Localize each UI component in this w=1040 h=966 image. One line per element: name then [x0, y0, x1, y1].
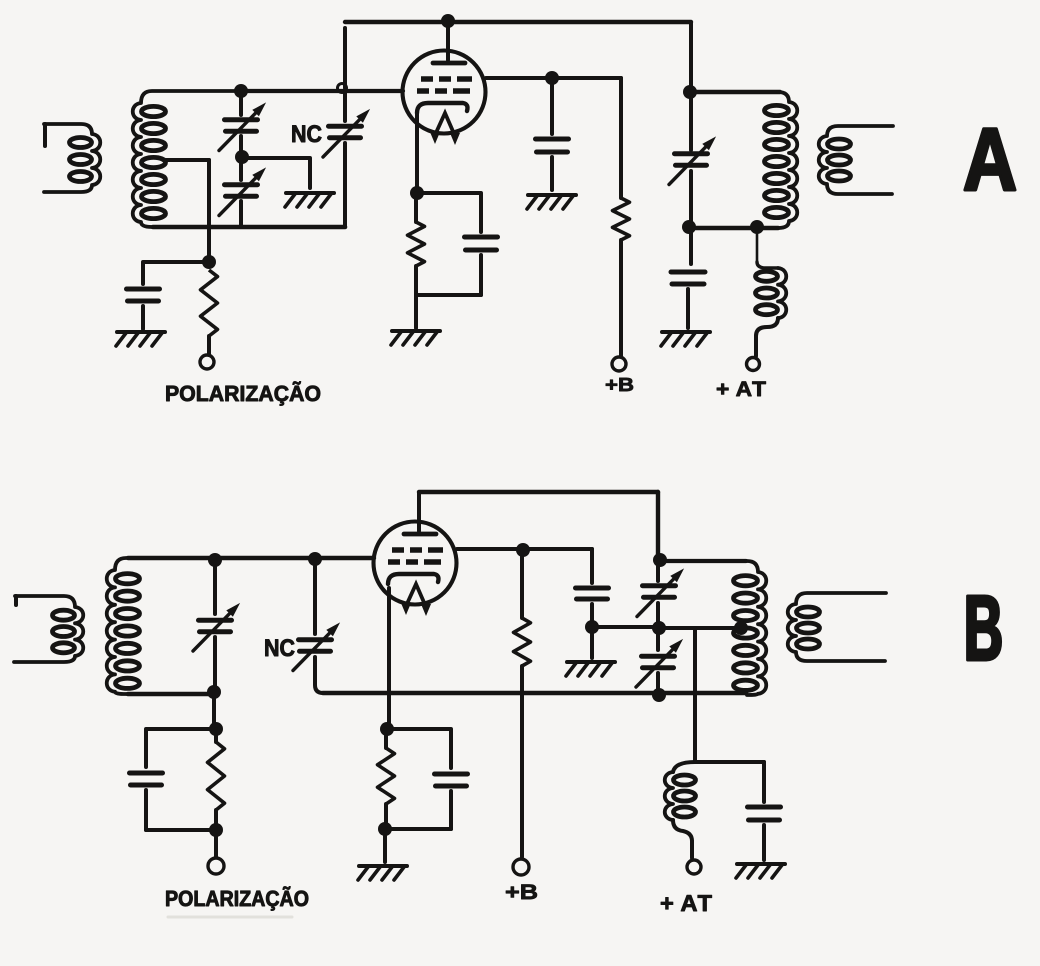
wire cathode RC top link B: [387, 729, 451, 768]
node screen cap bottom junction B: [585, 620, 599, 634]
node cathode ground junction B: [378, 822, 392, 836]
resistor R4 (cathode, circuit B): [378, 748, 395, 804]
wire output VC1 top stem B: [656, 560, 660, 581]
wire riser from grid node to top bus A: [343, 28, 347, 88]
terminal +AT (circuit A): [747, 358, 760, 371]
node tank VC top junction B: [208, 553, 222, 567]
ground (cathode, circuit A): [391, 331, 440, 345]
coil RFC2 (plate choke, circuit B): [665, 772, 696, 820]
ground (inner tank, circuit A): [285, 193, 334, 207]
wire bias drop B: [212, 692, 216, 723]
wire plate bus drop B: [656, 492, 660, 555]
node tank tap junction A: [235, 150, 249, 164]
wire cathode resistor top stem B: [384, 729, 388, 748]
wire cathode lead A: [415, 112, 419, 193]
wire output tank bottom bus A: [689, 226, 778, 231]
wire tank VC bottom stem B: [213, 637, 217, 692]
label +B (circuit B): [506, 885, 537, 899]
wire RFC bottom hook A: [756, 318, 778, 336]
wire VC1-VC2 stem A: [239, 136, 243, 180]
wire bias left branch A: [143, 262, 209, 284]
wire cathode resistor bottom stem A: [414, 266, 418, 295]
wire NC bottom stem B: [315, 657, 323, 693]
node output tank top junction A: [683, 85, 697, 99]
wire screen cap drop B: [590, 549, 594, 583]
coil L4 (output coupling, circuit A): [819, 126, 893, 194]
wire tank bottom link B: [128, 692, 214, 697]
variable capacitor CV4 (tank, circuit B): [193, 603, 240, 651]
node VC1 top junction A: [234, 84, 248, 98]
wire grid bus A (tank top to tube grid): [238, 89, 403, 93]
wire bias terminal lead B: [214, 830, 218, 857]
wire NC top stem A: [343, 92, 347, 121]
wire cathode ground stem A: [414, 295, 418, 328]
wire cathode resistor bottom stem B: [384, 804, 388, 829]
node coil tap B: [734, 621, 748, 635]
wire inner ground branch A: [244, 158, 310, 188]
resistor R1 (cathode, circuit A): [408, 222, 425, 266]
label NC (circuit B): [265, 639, 294, 656]
wire RFC cap link B: [695, 760, 764, 764]
ground (bias filter, circuit A): [116, 332, 165, 346]
label +AT (circuit A): [717, 382, 766, 396]
wire riser top bus to output tank A: [689, 22, 693, 150]
vacuum tube V2 (circuit B): [374, 522, 457, 617]
variable capacitor CV2 (padder, circuit A): [219, 167, 266, 215]
vacuum tube V1 (circuit A): [403, 51, 486, 146]
wire screen cap bottom stem B: [590, 604, 594, 627]
wire cathode ground stem B: [383, 829, 387, 862]
wire NC top stem B: [313, 559, 317, 634]
wire VC2 bottom stem B: [656, 673, 660, 694]
wire plate lead A: [446, 22, 450, 60]
ground (output tank, circuit A): [661, 332, 710, 346]
node screen bypass junction A: [545, 71, 559, 85]
node cathode junction B: [380, 722, 394, 736]
wire screen bypass cap stem A: [550, 78, 554, 134]
wire bias resistor top stem B: [214, 729, 218, 742]
label B (schematic B): [968, 596, 1001, 660]
wire VC1-VC2 stem B: [656, 603, 660, 650]
wire screen ground stem B: [590, 627, 594, 658]
node output tank bottom junction A: [682, 220, 696, 234]
coil L5 primary (input, circuit B): [14, 596, 83, 662]
wire output tank top bus B: [660, 559, 746, 563]
wire L1 top lead stub: [43, 124, 47, 146]
wire top bus A: [345, 20, 691, 24]
label +B (circuit A): [606, 378, 633, 391]
ground (screen bypass, circuit A): [527, 195, 576, 209]
wire tank VC top stem B: [213, 560, 217, 614]
wire cathode RC bottom link B: [385, 827, 451, 831]
coil L6 secondary (tank, circuit B): [107, 558, 140, 694]
terminal POLARIZACAO (circuit A): [200, 355, 214, 369]
wire screen bus B: [457, 547, 592, 551]
label POLARIZACAO (circuit A): [166, 381, 320, 405]
variable capacitor NC (neutralizing, circuit B): [293, 622, 340, 670]
wire screen drop to resistor A: [619, 78, 623, 198]
node cathode junction A: [410, 186, 424, 200]
wire cathode cap bottom stem B: [449, 791, 453, 829]
wire +AT lead B: [690, 841, 694, 858]
wire RFC cap stem B: [762, 762, 766, 802]
capacitor C3 (screen bypass, circuit A): [536, 139, 569, 152]
wire plate lead B: [417, 492, 421, 531]
wire tank bottom bus A: [153, 225, 345, 230]
coil L3 (output tank, circuit A): [765, 92, 798, 228]
wire cathode RC top link A: [417, 193, 481, 232]
capacitor C4 (plate blocking, circuit A): [671, 272, 705, 284]
wire cathode RC bottom link A: [416, 293, 481, 297]
ground (RFC bypass, circuit B): [736, 864, 785, 878]
wire VC1 top stem A: [239, 91, 243, 115]
resistor R5 (bias feed, circuit B): [208, 742, 225, 810]
wire grid bus B: [128, 556, 374, 560]
coil L2 secondary (tank, circuit A): [133, 91, 240, 227]
node bias junction B: [209, 722, 223, 736]
wire +AT lead A: [754, 336, 758, 356]
terminal +AT (circuit B): [687, 860, 701, 874]
wire screen bypass ground stem A: [550, 157, 554, 190]
wire bias cap bottom stem B: [144, 790, 148, 830]
wire cathode cap bottom stem A: [479, 255, 483, 295]
wire cathode resistor top stem A: [414, 193, 418, 222]
wire L5 top lead stub: [14, 596, 18, 605]
node RFC junction A: [750, 220, 764, 234]
ground (screen bypass, circuit B): [566, 662, 615, 676]
resistor R3 (screen dropping, circuit A): [613, 198, 630, 240]
coil RFC1 (plate choke, circuit A): [756, 268, 787, 318]
node output tank bottom junction B: [652, 688, 666, 702]
wire coil tap A: [166, 158, 209, 162]
terminal +B (circuit B): [513, 859, 529, 875]
capacitor C8 (RFC bypass, circuit B): [748, 807, 781, 820]
variable capacitor CV6 (loading, circuit B): [636, 639, 683, 687]
capacitor C7 (screen bypass, circuit B): [576, 588, 609, 599]
wire screen resistor top stem B: [520, 550, 524, 618]
resistor R6 (screen dropping, circuit B): [514, 618, 531, 666]
capacitor C2 (bias filter, circuit A): [127, 289, 160, 301]
wire VC2 bottom stem A: [239, 201, 243, 226]
wire faint smudge artifact: [168, 916, 292, 919]
terminal POLARIZACAO (circuit B): [208, 858, 224, 874]
label NC (circuit A): [292, 125, 321, 142]
label POLARIZACAO (circuit B): [166, 886, 308, 910]
wire tap link B: [659, 626, 738, 630]
wire bias resistor bottom stem B: [214, 810, 218, 830]
coil L1 primary (input, circuit A): [44, 124, 100, 192]
wire blocking cap ground stem A: [686, 289, 690, 328]
label A (schematic A): [965, 129, 1015, 190]
wire tap drop B: [693, 628, 697, 762]
label +AT (circuit B): [661, 895, 712, 911]
node tank bottom junction B: [207, 685, 221, 699]
wire bias left branch B: [146, 729, 216, 767]
wire bottom bus B: [323, 691, 746, 696]
wire RFC top hook B: [673, 762, 695, 772]
wire cathode lead B: [387, 588, 391, 723]
wire +B lead A: [619, 240, 623, 356]
capacitor C5 (cathode bypass, circuit B): [435, 774, 468, 786]
wire screen bus A: [486, 76, 621, 80]
node bias bottom junction B: [209, 823, 223, 837]
wire tap drop to bias network A: [207, 160, 211, 256]
wire RFC top hook A: [757, 262, 778, 268]
coil L7 (output tank, circuit B): [734, 561, 767, 695]
variable capacitor NC (neutralizing, circuit A): [323, 109, 370, 157]
resistor R2 (bias feed, circuit A): [201, 270, 218, 336]
wire mid link B: [592, 625, 659, 629]
variable capacitor CV1 (tank, circuit A): [219, 102, 266, 150]
node NC top junction B: [308, 552, 322, 566]
wire RFC top stem A: [756, 228, 759, 262]
wire output VC bottom stem A: [689, 171, 693, 264]
wire NC bottom stem A: [343, 143, 347, 226]
wire bias cap ground stem A: [141, 306, 145, 329]
wire bias bottom link B: [146, 828, 216, 832]
terminal +B (circuit A): [612, 357, 626, 371]
variable capacitor CV3 (output tank, circuit A): [669, 136, 716, 184]
node screen resistor junction B: [516, 543, 530, 557]
wire +B lead B: [520, 666, 524, 857]
node grid/plate-riser hook A: [338, 84, 347, 93]
wire plate top bus B: [419, 490, 658, 494]
node output VC top junction B: [653, 553, 667, 567]
wire RFC cap ground stem B: [762, 825, 766, 860]
node plate junction on top bus A: [441, 14, 455, 28]
node mid VC junction B: [652, 621, 666, 635]
coil L8 (output coupling, circuit B): [788, 593, 886, 661]
wire RFC bottom hook B: [673, 820, 692, 841]
capacitor C1 (cathode bypass, circuit A): [465, 237, 498, 250]
node bias junction A: [202, 255, 216, 269]
wire bias resistor to terminal A: [207, 336, 211, 355]
ground (cathode, circuit B): [358, 866, 407, 880]
wire output tank top bus A: [691, 90, 780, 94]
variable capacitor CV5 (output tank, circuit B): [637, 568, 684, 616]
capacitor C6 (bias filter, circuit B): [130, 773, 163, 785]
